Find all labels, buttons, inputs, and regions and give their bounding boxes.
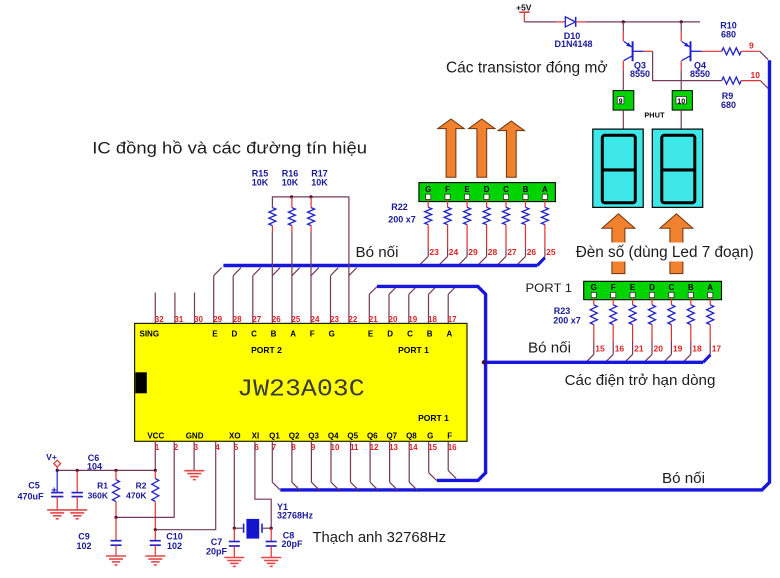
svg-text:F: F — [611, 283, 616, 292]
crystal Y1 — [244, 502, 314, 539]
svg-text:Q7: Q7 — [386, 432, 397, 441]
arrow indicator 5 — [660, 214, 693, 274]
wire pin 13 (Q7) to main bus — [390, 441, 398, 490]
svg-text:E: E — [212, 330, 218, 339]
junction nodes on rail — [56, 469, 157, 472]
wire Q3 collector — [622, 70, 624, 90]
capacitor C5 — [17, 470, 67, 518]
power V+ — [46, 452, 60, 470]
IC U1 bottom pin numbers — [155, 443, 457, 452]
transistor Q4 — [681, 22, 710, 79]
connector box node 10 — [672, 91, 692, 111]
svg-text:27: 27 — [252, 315, 261, 324]
svg-text:102: 102 — [76, 541, 91, 551]
svg-text:11: 11 — [350, 443, 359, 452]
svg-text:G: G — [591, 283, 597, 292]
arrow indicator 2 — [469, 119, 495, 177]
svg-text:31: 31 — [174, 315, 183, 324]
svg-text:PORT 1: PORT 1 — [418, 413, 449, 423]
IC U1 top pin numbers — [155, 315, 457, 324]
junction node R16 top — [290, 195, 293, 198]
wire net 10 — [741, 70, 768, 88]
annotation Cac dien tro han dong — [565, 372, 716, 389]
svg-text:25: 25 — [546, 247, 556, 257]
wire pin 18 to bus2 — [429, 287, 437, 324]
svg-text:Bó nối: Bó nối — [662, 470, 705, 487]
svg-text:10: 10 — [751, 70, 761, 80]
wire pin 16 (F) to bus2 — [448, 441, 456, 478]
svg-text:B: B — [688, 283, 694, 292]
svg-text:R23: R23 — [554, 306, 571, 316]
wire pin 21 to bus2 — [369, 287, 377, 324]
wire net 25 (R22) — [537, 247, 556, 264]
svg-text:9: 9 — [619, 98, 623, 105]
wire net 9 — [741, 41, 768, 60]
svg-text:28: 28 — [488, 247, 498, 257]
transistor Q3 — [623, 22, 650, 79]
svg-text:PORT 2: PORT 2 — [251, 345, 282, 355]
svg-text:PORT 1: PORT 1 — [526, 283, 573, 295]
label PORT 1 — [526, 283, 573, 295]
wire pin 8 (Q2) to main bus — [292, 441, 300, 490]
annotation Den so — [570, 243, 758, 262]
svg-text:R1: R1 — [97, 480, 108, 490]
wire net 26 (R22) — [518, 247, 537, 264]
svg-text:8550: 8550 — [630, 69, 650, 79]
wire pin 24 to R17 — [311, 233, 319, 324]
wire pin 9 (Q3) to main bus — [311, 441, 319, 490]
svg-text:27: 27 — [507, 247, 517, 257]
svg-text:14: 14 — [409, 443, 418, 452]
wire box10 to display — [680, 110, 682, 129]
annotation IC dong ho — [92, 139, 367, 158]
svg-text:680: 680 — [721, 100, 736, 110]
svg-text:B: B — [427, 330, 433, 339]
wire pin 5 XO — [234, 441, 243, 528]
connector box node 9 — [613, 91, 634, 111]
wire pin 23 to bus — [331, 268, 339, 324]
svg-text:E: E — [368, 330, 374, 339]
svg-text:20: 20 — [389, 315, 398, 324]
svg-text:10: 10 — [677, 98, 685, 105]
wire net 16 (R23) — [605, 342, 624, 363]
wire pin 20 to bus2 — [389, 287, 397, 324]
svg-text:A: A — [542, 185, 548, 194]
svg-text:D: D — [232, 330, 238, 339]
IC U1 JW23A03C body — [135, 323, 467, 441]
ground GND pin 3 — [184, 441, 204, 479]
annotation cac transistor — [446, 60, 608, 77]
wire pin 26 to R19 — [272, 233, 280, 324]
svg-text:Đèn số (dùng Led 7 đoạn): Đèn số (dùng Led 7 đoạn) — [576, 244, 754, 261]
svg-text:C: C — [669, 283, 675, 292]
svg-text:+5V: +5V — [516, 3, 532, 13]
svg-text:R22: R22 — [391, 202, 408, 212]
svg-text:19: 19 — [408, 315, 417, 324]
capacitor C9 — [76, 517, 126, 565]
capacitor C6 — [67, 453, 102, 519]
svg-text:A: A — [707, 283, 713, 292]
svg-text:G: G — [425, 185, 431, 194]
svg-text:470K: 470K — [126, 491, 147, 501]
svg-text:Q5: Q5 — [347, 432, 358, 441]
svg-text:15: 15 — [595, 344, 605, 354]
bus Bo noi resistors — [486, 355, 711, 363]
svg-text:IC đồng hồ và các đường tín hi: IC đồng hồ và các đường tín hiệu — [92, 139, 367, 158]
junction node R1/C9 — [114, 516, 117, 519]
svg-text:G: G — [329, 330, 335, 339]
wire Q3 base to R9 — [644, 51, 722, 80]
svg-text:17: 17 — [448, 315, 457, 324]
wire pin 29 to bus — [214, 268, 222, 324]
wire net 28 (R22) — [479, 247, 498, 264]
svg-text:Thạch anh 32768Hz: Thạch anh 32768Hz — [313, 530, 447, 546]
svg-text:25: 25 — [291, 315, 300, 324]
svg-text:PHUT: PHUT — [644, 111, 665, 120]
wire pin 25 to R18 — [292, 233, 300, 324]
svg-text:32: 32 — [155, 315, 164, 324]
svg-text:10: 10 — [331, 443, 340, 452]
svg-text:23: 23 — [330, 315, 339, 324]
svg-text:16: 16 — [615, 344, 625, 354]
svg-text:B: B — [271, 330, 277, 339]
svg-text:20pF: 20pF — [206, 547, 228, 557]
svg-text:Q2: Q2 — [289, 432, 300, 441]
svg-text:Q6: Q6 — [367, 432, 378, 441]
svg-text:A: A — [290, 330, 296, 339]
svg-text:C: C — [251, 330, 257, 339]
svg-text:XI: XI — [252, 432, 260, 441]
svg-text:Q3: Q3 — [308, 432, 319, 441]
resistor R17 — [308, 169, 329, 233]
svg-text:8550: 8550 — [690, 69, 710, 79]
wire pin 6 XI — [255, 441, 271, 528]
IC U1 bottom pin names — [147, 432, 452, 441]
wire net 19 (R23) — [664, 342, 683, 363]
svg-text:200 x7: 200 x7 — [553, 316, 581, 326]
wire net 29 (R22) — [459, 247, 478, 264]
wire pin 28 to bus — [233, 268, 241, 324]
svg-text:Các điện trở hạn dòng: Các điện trở hạn dòng — [565, 372, 716, 389]
svg-text:Bó nối: Bó nối — [356, 244, 399, 261]
wire Q4 collector — [680, 70, 682, 90]
svg-text:B: B — [523, 185, 529, 194]
wire net 27 (R22) — [498, 247, 517, 264]
wire pin 19 to bus2 — [409, 287, 417, 324]
connector J2 (segment header) — [584, 281, 722, 299]
arrow indicator 4 — [602, 214, 635, 274]
svg-text:200 x7: 200 x7 — [388, 215, 416, 225]
svg-text:470uF: 470uF — [17, 492, 44, 502]
svg-text:PORT 1: PORT 1 — [398, 345, 429, 355]
svg-text:10K: 10K — [311, 177, 328, 187]
svg-text:C: C — [407, 330, 413, 339]
svg-text:Bó nối: Bó nối — [528, 339, 571, 356]
svg-text:Các transistor đóng mở: Các transistor đóng mở — [446, 60, 608, 77]
svg-text:G: G — [427, 432, 433, 441]
svg-text:A: A — [447, 330, 453, 339]
svg-text:18: 18 — [428, 315, 437, 324]
svg-text:10K: 10K — [282, 177, 299, 187]
wire net 24 (R22) — [440, 247, 459, 264]
svg-text:F: F — [445, 185, 450, 194]
wire pin 14 (Q8) to main bus — [409, 441, 417, 490]
connector J1 (display header) — [419, 183, 556, 202]
svg-text:16: 16 — [448, 443, 457, 452]
svg-text:15: 15 — [428, 443, 437, 452]
svg-text:V+: V+ — [46, 452, 57, 462]
svg-text:20: 20 — [654, 344, 664, 354]
wire pin 1 VCC — [154, 441, 156, 470]
wire net 21 (R23) — [625, 342, 644, 363]
wire pin 30 stub — [194, 293, 196, 324]
wire pull-up rail — [272, 197, 349, 208]
junction node XI/C8/Y1 — [270, 527, 273, 530]
resistor network R23 — [553, 298, 713, 342]
junction node R17 top — [309, 195, 312, 198]
wire box9 to display — [622, 110, 624, 129]
svg-text:D: D — [484, 185, 490, 194]
resistor R15 — [252, 169, 276, 233]
svg-text:F: F — [310, 330, 315, 339]
svg-text:28: 28 — [233, 315, 242, 324]
wire pin 15 (G) to bus2 — [429, 441, 437, 480]
svg-text:13: 13 — [389, 443, 398, 452]
wire pin 11 (Q5) to main bus — [351, 441, 359, 490]
resistor R9 — [721, 77, 741, 110]
arrow indicator 1 — [438, 119, 464, 177]
wire pin 12 (Q6) to main bus — [370, 441, 378, 490]
display DS1 (7-segment) — [593, 129, 643, 207]
resistor R10 — [720, 21, 741, 55]
wire net 20 (R23) — [644, 342, 663, 363]
wire Q4 base to R10 — [702, 50, 722, 52]
junction node XO/C7/Y1 — [233, 527, 236, 530]
wire pin 31 stub — [174, 293, 176, 324]
svg-text:D: D — [387, 330, 393, 339]
wire pin 32 stub — [154, 293, 156, 324]
label Bo noi 2 — [528, 339, 571, 356]
svg-text:29: 29 — [213, 315, 222, 324]
svg-text:680: 680 — [721, 29, 736, 39]
resistor R1 — [88, 470, 120, 517]
label Bo noi 3 — [662, 470, 705, 487]
display DS2 (7-segment) — [652, 129, 702, 207]
svg-text:21: 21 — [634, 344, 644, 354]
svg-text:30: 30 — [194, 315, 203, 324]
wire pin 22 to pull-up rail — [349, 197, 357, 324]
junction node Q3 emitter — [622, 20, 625, 23]
svg-text:19: 19 — [673, 344, 683, 354]
junction node bus3 branch — [482, 360, 486, 364]
svg-text:VCC: VCC — [147, 432, 164, 441]
svg-text:XO: XO — [229, 432, 241, 441]
svg-text:D: D — [649, 283, 655, 292]
arrow indicator 3 — [498, 121, 524, 177]
annotation Thach anh — [313, 530, 447, 546]
bus PORT1 to connector — [377, 286, 486, 480]
wire pin 17 to bus2 — [448, 287, 456, 324]
resistor R16 — [282, 169, 299, 233]
svg-text:R2: R2 — [136, 480, 147, 490]
svg-text:E: E — [630, 283, 636, 292]
svg-text:23: 23 — [429, 247, 439, 257]
junction node Q4 emitter — [680, 20, 683, 23]
svg-text:24: 24 — [311, 315, 320, 324]
svg-text:F: F — [447, 432, 452, 441]
label PHUT — [644, 111, 665, 120]
wire pin 27 to bus — [253, 268, 261, 324]
capacitor C8 — [261, 528, 303, 566]
svg-text:12: 12 — [370, 443, 379, 452]
wire +5V rail — [524, 21, 700, 23]
svg-text:32768Hz: 32768Hz — [277, 510, 314, 520]
svg-text:29: 29 — [468, 247, 478, 257]
svg-text:Q1: Q1 — [269, 432, 280, 441]
wire pin 4 to R2 bottom — [155, 441, 215, 529]
svg-text:102: 102 — [167, 541, 182, 551]
svg-text:26: 26 — [527, 247, 537, 257]
svg-text:9: 9 — [749, 41, 754, 51]
wire net 18 (R23) — [683, 342, 702, 363]
wire net 23 (R22) — [420, 247, 439, 264]
svg-text:10K: 10K — [252, 177, 269, 187]
svg-text:26: 26 — [272, 315, 281, 324]
svg-text:SING: SING — [140, 330, 160, 339]
svg-text:20pF: 20pF — [281, 539, 303, 549]
svg-text:C: C — [503, 185, 509, 194]
wire net 17 (R23) — [702, 342, 721, 363]
svg-text:Q4: Q4 — [328, 432, 339, 441]
svg-text:Q8: Q8 — [406, 432, 417, 441]
bus main Bo noi — [280, 60, 769, 490]
wire net 15 (R23) — [586, 342, 605, 363]
resistor network R22 — [388, 199, 548, 247]
wire pin 7 (Q1) to main bus — [272, 441, 280, 490]
svg-text:21: 21 — [369, 315, 378, 324]
svg-text:E: E — [464, 185, 470, 194]
junction node R2/C10 — [154, 528, 157, 531]
resistor R2 — [126, 470, 159, 529]
wire pin 2 to R1 bottom — [116, 441, 174, 517]
svg-text:GND: GND — [186, 432, 204, 441]
svg-text:18: 18 — [692, 344, 702, 354]
wire pin 10 (Q4) to main bus — [331, 441, 339, 490]
power +5V — [516, 3, 532, 22]
svg-text:D1N4148: D1N4148 — [554, 39, 592, 49]
svg-text:C5: C5 — [28, 480, 40, 490]
svg-text:22: 22 — [348, 315, 357, 324]
capacitor C10 — [145, 530, 182, 565]
svg-text:JW23A03C: JW23A03C — [237, 377, 365, 404]
svg-text:104: 104 — [87, 462, 102, 472]
bus Bo noi PORT2 — [223, 258, 545, 266]
capacitor C7 — [206, 528, 244, 566]
svg-text:360K: 360K — [88, 491, 109, 501]
diode D10 — [554, 17, 592, 49]
svg-text:24: 24 — [449, 247, 459, 257]
svg-text:17: 17 — [712, 344, 722, 354]
label Bo noi 1 — [356, 244, 399, 261]
wire V+ rail — [57, 469, 155, 471]
